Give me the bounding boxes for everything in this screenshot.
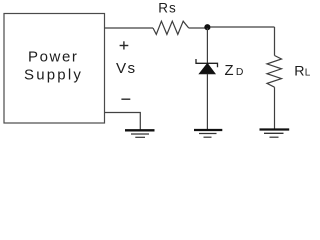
svg-text:Power: Power [28, 48, 79, 65]
svg-text:Supply: Supply [24, 67, 83, 84]
wire: box to Rs [105, 27, 154, 29]
wire: box bottom to ground [105, 113, 141, 130]
node A junction dot [204, 24, 210, 30]
ground (RL) [260, 130, 290, 138]
resistor RL [267, 56, 282, 88]
svg-text:Z: Z [225, 63, 234, 79]
wire: RL to ground [274, 87, 276, 129]
zener diode ZD [196, 59, 218, 74]
svg-text:Rs: Rs [158, 0, 176, 15]
wire: Rs to node A [189, 27, 205, 29]
label - [121, 98, 130, 100]
svg-text:D: D [236, 67, 244, 78]
wire: RL branch vertical top [274, 27, 276, 56]
resistor Rs [153, 21, 189, 34]
svg-text:Vs: Vs [116, 60, 137, 77]
wire: zener branch from node A [206, 28, 208, 63]
svg-text:L: L [305, 67, 311, 78]
svg-text:R: R [294, 63, 304, 79]
ground (power supply) [125, 130, 155, 137]
ground (zener) [194, 130, 222, 137]
power supply box [4, 14, 105, 124]
label + [120, 41, 129, 49]
wire: zener to ground [206, 74, 208, 130]
wire: node A to RL corner (top rail) [210, 26, 275, 28]
